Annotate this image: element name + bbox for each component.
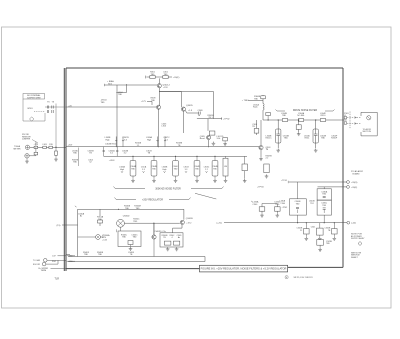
svg-text:TBD: TBD bbox=[122, 237, 127, 239]
svg-text:U340D: U340D bbox=[123, 215, 130, 217]
svg-text:300KHZ NOISE FILTER: 300KHZ NOISE FILTER bbox=[155, 187, 181, 190]
svg-text:DRIVE NOISE FILTER: DRIVE NOISE FILTER bbox=[293, 109, 317, 112]
svg-text:W301: W301 bbox=[27, 108, 33, 110]
svg-text:S34 OR: S34 OR bbox=[33, 264, 41, 266]
svg-text:Q3435: Q3435 bbox=[186, 105, 193, 107]
svg-text:C341: C341 bbox=[311, 226, 316, 228]
svg-text:High: High bbox=[105, 139, 109, 141]
svg-text:TBD: TBD bbox=[131, 168, 135, 170]
svg-text:3.0k: 3.0k bbox=[217, 138, 221, 140]
svg-text:TBD: TBD bbox=[254, 98, 259, 100]
svg-text:TBD: TBD bbox=[101, 102, 106, 104]
svg-text:TBD: TBD bbox=[321, 138, 326, 140]
svg-text:3.3: 3.3 bbox=[142, 169, 145, 171]
svg-text:TBD: TBD bbox=[84, 254, 89, 256]
svg-text:TBD: TBD bbox=[326, 243, 330, 245]
svg-text:+TP32: +TP32 bbox=[223, 119, 230, 121]
svg-text:+20(F): +20(F) bbox=[351, 187, 357, 189]
svg-text:TBD: TBD bbox=[296, 203, 300, 205]
svg-text:+L303: +L303 bbox=[109, 160, 116, 162]
svg-text:TBD: TBD bbox=[133, 237, 138, 239]
svg-text:High: High bbox=[147, 139, 151, 141]
svg-text:TBD: TBD bbox=[164, 74, 169, 76]
svg-text:+17V: +17V bbox=[141, 101, 147, 103]
svg-text:(15): (15) bbox=[57, 225, 61, 227]
svg-text:NO SEL: NO SEL bbox=[297, 115, 305, 117]
svg-text:TBD: TBD bbox=[73, 162, 78, 164]
svg-text:SECTION: SECTION bbox=[363, 131, 372, 133]
svg-text:TP4: TP4 bbox=[310, 203, 313, 205]
svg-text:+TP34: +TP34 bbox=[257, 186, 264, 188]
svg-text:SR 25, FIG 7-88 P/O: SR 25, FIG 7-88 P/O bbox=[294, 277, 314, 279]
svg-text:TBD: TBD bbox=[284, 138, 289, 140]
svg-text:TBD: TBD bbox=[195, 168, 199, 170]
svg-text:+TP41: +TP41 bbox=[281, 180, 288, 182]
svg-text:+19V: +19V bbox=[163, 87, 168, 89]
svg-text:JUMPER WIRE: JUMPER WIRE bbox=[27, 97, 42, 99]
svg-text:R311C: R311C bbox=[265, 138, 272, 140]
svg-text:TBD: TBD bbox=[73, 153, 78, 155]
svg-text:3.3: 3.3 bbox=[185, 169, 188, 171]
svg-text:SIG: SIG bbox=[108, 83, 112, 85]
svg-text:METER: METER bbox=[14, 148, 22, 150]
svg-text:L30: L30 bbox=[224, 166, 227, 168]
svg-text:TBD: TBD bbox=[174, 168, 178, 170]
svg-text:C340: C340 bbox=[280, 203, 285, 205]
svg-text:SHEET: SHEET bbox=[351, 257, 358, 259]
svg-text:TO XA5: TO XA5 bbox=[33, 259, 41, 262]
svg-text:TBD: TBD bbox=[125, 208, 130, 210]
svg-text:TBD: TBD bbox=[118, 94, 123, 96]
svg-text:C34B: C34B bbox=[198, 110, 204, 112]
svg-text:TERM: TERM bbox=[41, 270, 47, 272]
svg-text:JUMPER: JUMPER bbox=[22, 139, 31, 141]
svg-text:Rank: Rank bbox=[253, 107, 258, 109]
svg-text:+20(S): +20(S) bbox=[351, 182, 358, 184]
svg-text:TBD: TBD bbox=[136, 208, 141, 210]
svg-text:R310P: R310P bbox=[331, 138, 338, 140]
svg-text:L303: L303 bbox=[42, 144, 46, 146]
svg-text:TBD: TBD bbox=[152, 168, 156, 170]
svg-text:TBD: TBD bbox=[282, 115, 287, 117]
svg-text:TLR: TLR bbox=[55, 277, 60, 280]
svg-text:+19.2: +19.2 bbox=[186, 222, 192, 224]
svg-text:TBD: TBD bbox=[213, 168, 217, 170]
svg-text:+20V REGULATOR: +20V REGULATOR bbox=[142, 198, 163, 201]
svg-text:4: 4 bbox=[171, 237, 172, 239]
svg-text:TBD: TBD bbox=[98, 254, 103, 256]
svg-text:Q341B: Q341B bbox=[186, 218, 193, 220]
svg-text:TBD: TBD bbox=[133, 221, 138, 223]
svg-text:(+20): (+20) bbox=[217, 223, 222, 225]
svg-text:Band: Band bbox=[200, 138, 205, 140]
svg-text:TBD: TBD bbox=[151, 100, 156, 102]
svg-text:Ax: Ax bbox=[178, 236, 180, 239]
svg-text:+20(F): +20(F) bbox=[173, 77, 180, 79]
svg-text:TBD: TBD bbox=[151, 74, 156, 76]
svg-text:TBD: TBD bbox=[322, 205, 326, 207]
svg-text:High: High bbox=[120, 169, 124, 171]
svg-text:TBD: TBD bbox=[275, 204, 280, 206]
svg-text:+20V: +20V bbox=[68, 145, 73, 147]
svg-text:+TP3: +TP3 bbox=[34, 144, 39, 146]
svg-text:(+20): (+20) bbox=[351, 223, 356, 225]
svg-text:+ TRIG: + TRIG bbox=[242, 100, 249, 102]
svg-text:SUPPLY ASSY: SUPPLY ASSY bbox=[351, 237, 365, 240]
svg-text:C304B R304: C304B R304 bbox=[105, 144, 117, 146]
svg-text:High: High bbox=[163, 169, 167, 171]
svg-text:+TP42: +TP42 bbox=[282, 207, 288, 209]
svg-text:FIGURE 8-5. +20V REGULATOR, N: FIGURE 8-5. +20V REGULATOR, NOISE FILTER… bbox=[201, 267, 287, 271]
svg-text:BOARD: BOARD bbox=[353, 173, 361, 176]
svg-text:TBD: TBD bbox=[322, 194, 326, 196]
svg-text:2.2: 2.2 bbox=[205, 169, 208, 171]
svg-text:Bx: Bx bbox=[80, 216, 82, 218]
